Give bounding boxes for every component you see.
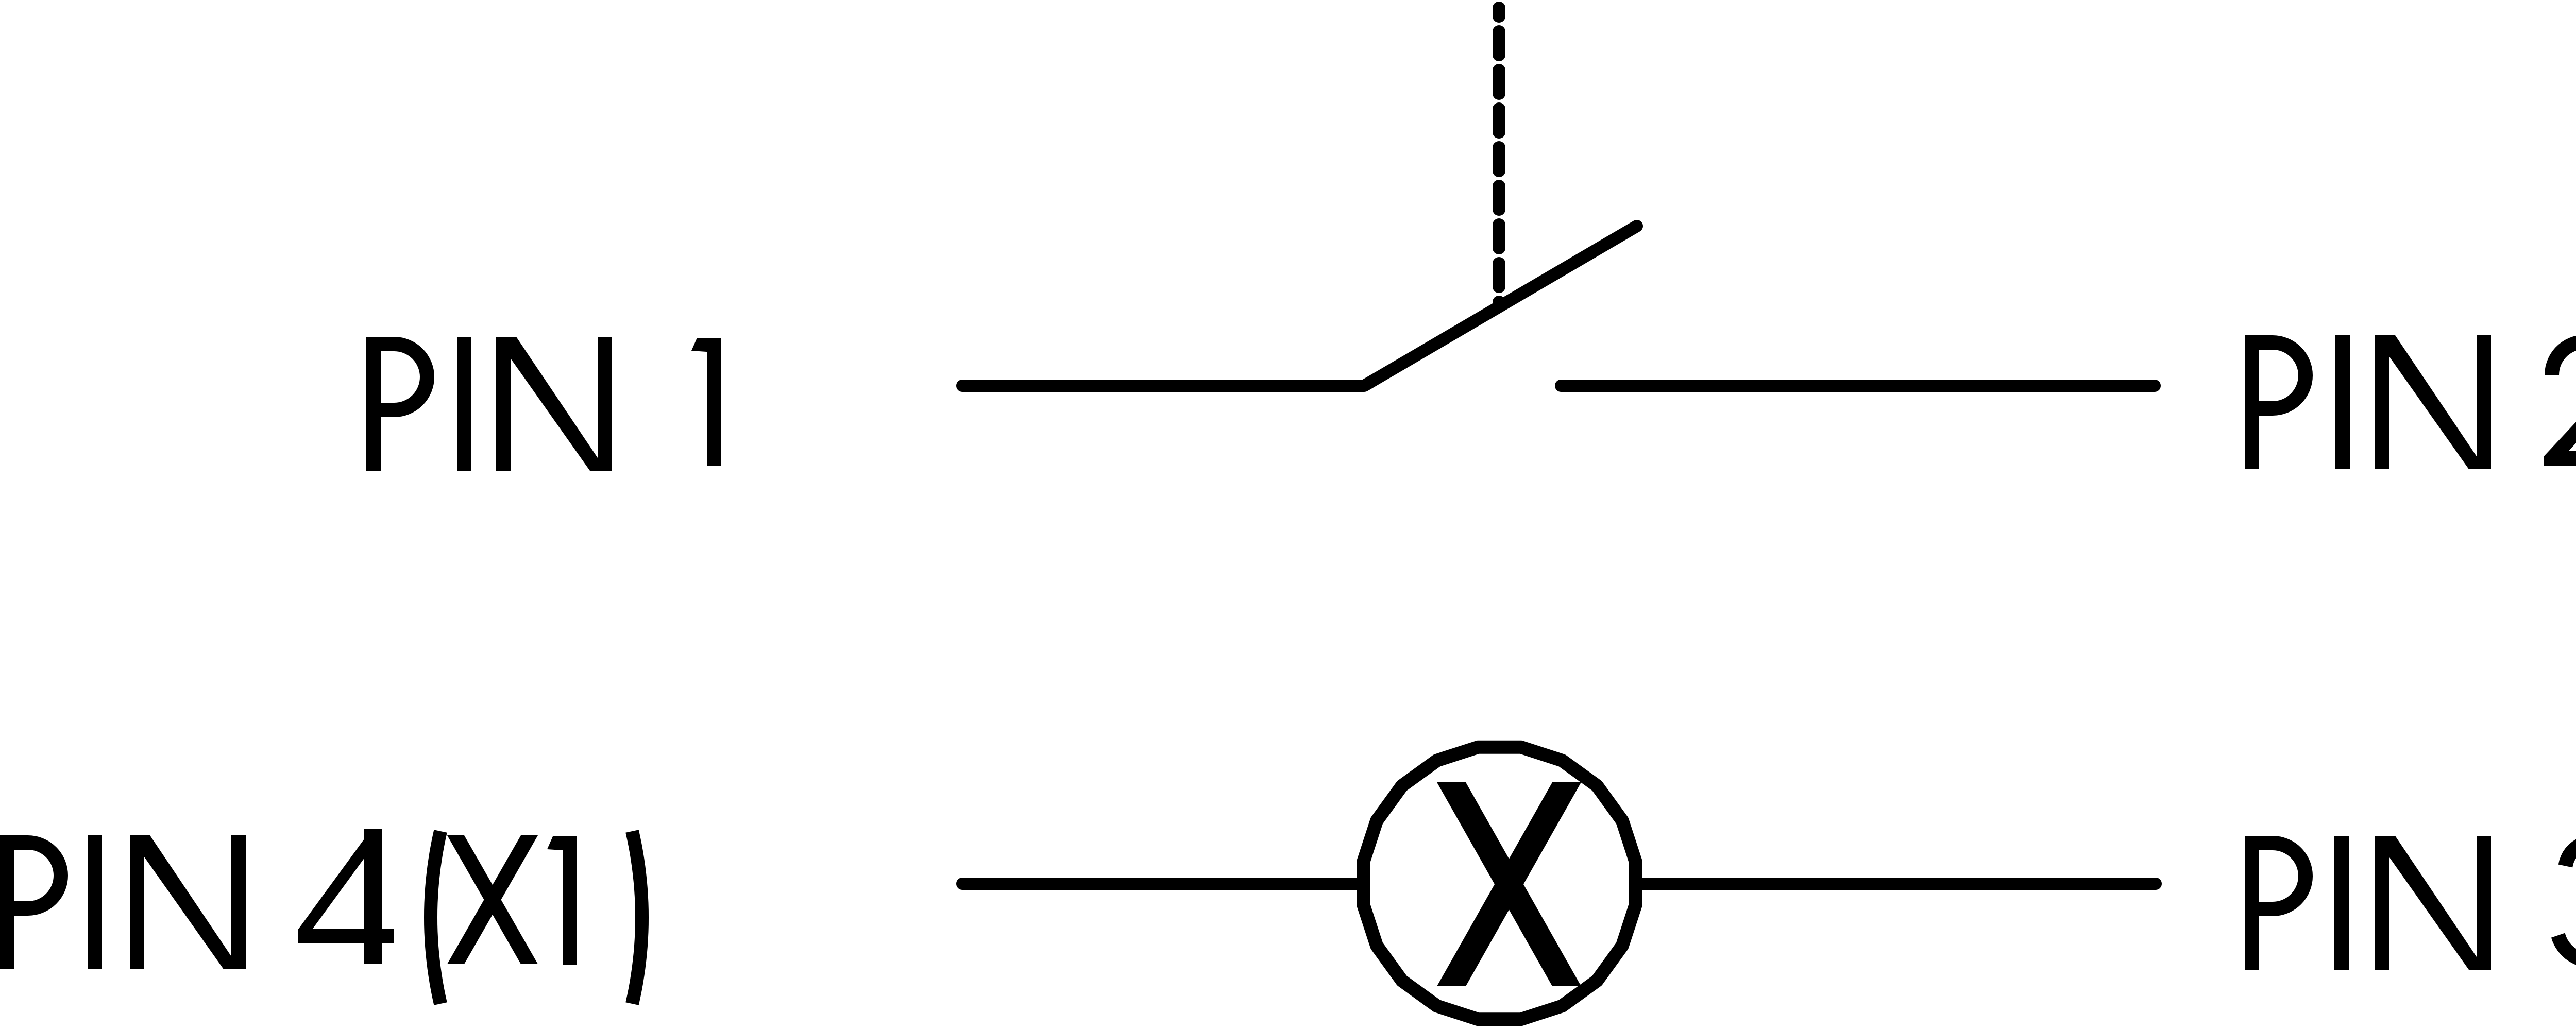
lamp X cross stroke 2 xyxy=(1437,782,1581,986)
wire PIN 4(X1) to lamp xyxy=(962,878,1362,890)
label PIN 2 xyxy=(2252,335,2576,469)
lamp X cross stroke 1 xyxy=(1437,782,1581,986)
switch actuator dashed line xyxy=(1493,8,1505,305)
wire lamp to PIN 3 (X2) xyxy=(1641,878,2156,890)
label PIN 4(X1) xyxy=(7,829,642,1004)
lamp circle xyxy=(1363,747,1635,1019)
wire PIN 1 to switch pivot + switch lever xyxy=(962,226,1637,386)
label PIN 1 xyxy=(374,337,715,471)
label PIN 3 (X2) xyxy=(2252,831,2576,1004)
wire switch contact to PIN 2 xyxy=(1561,380,2155,392)
